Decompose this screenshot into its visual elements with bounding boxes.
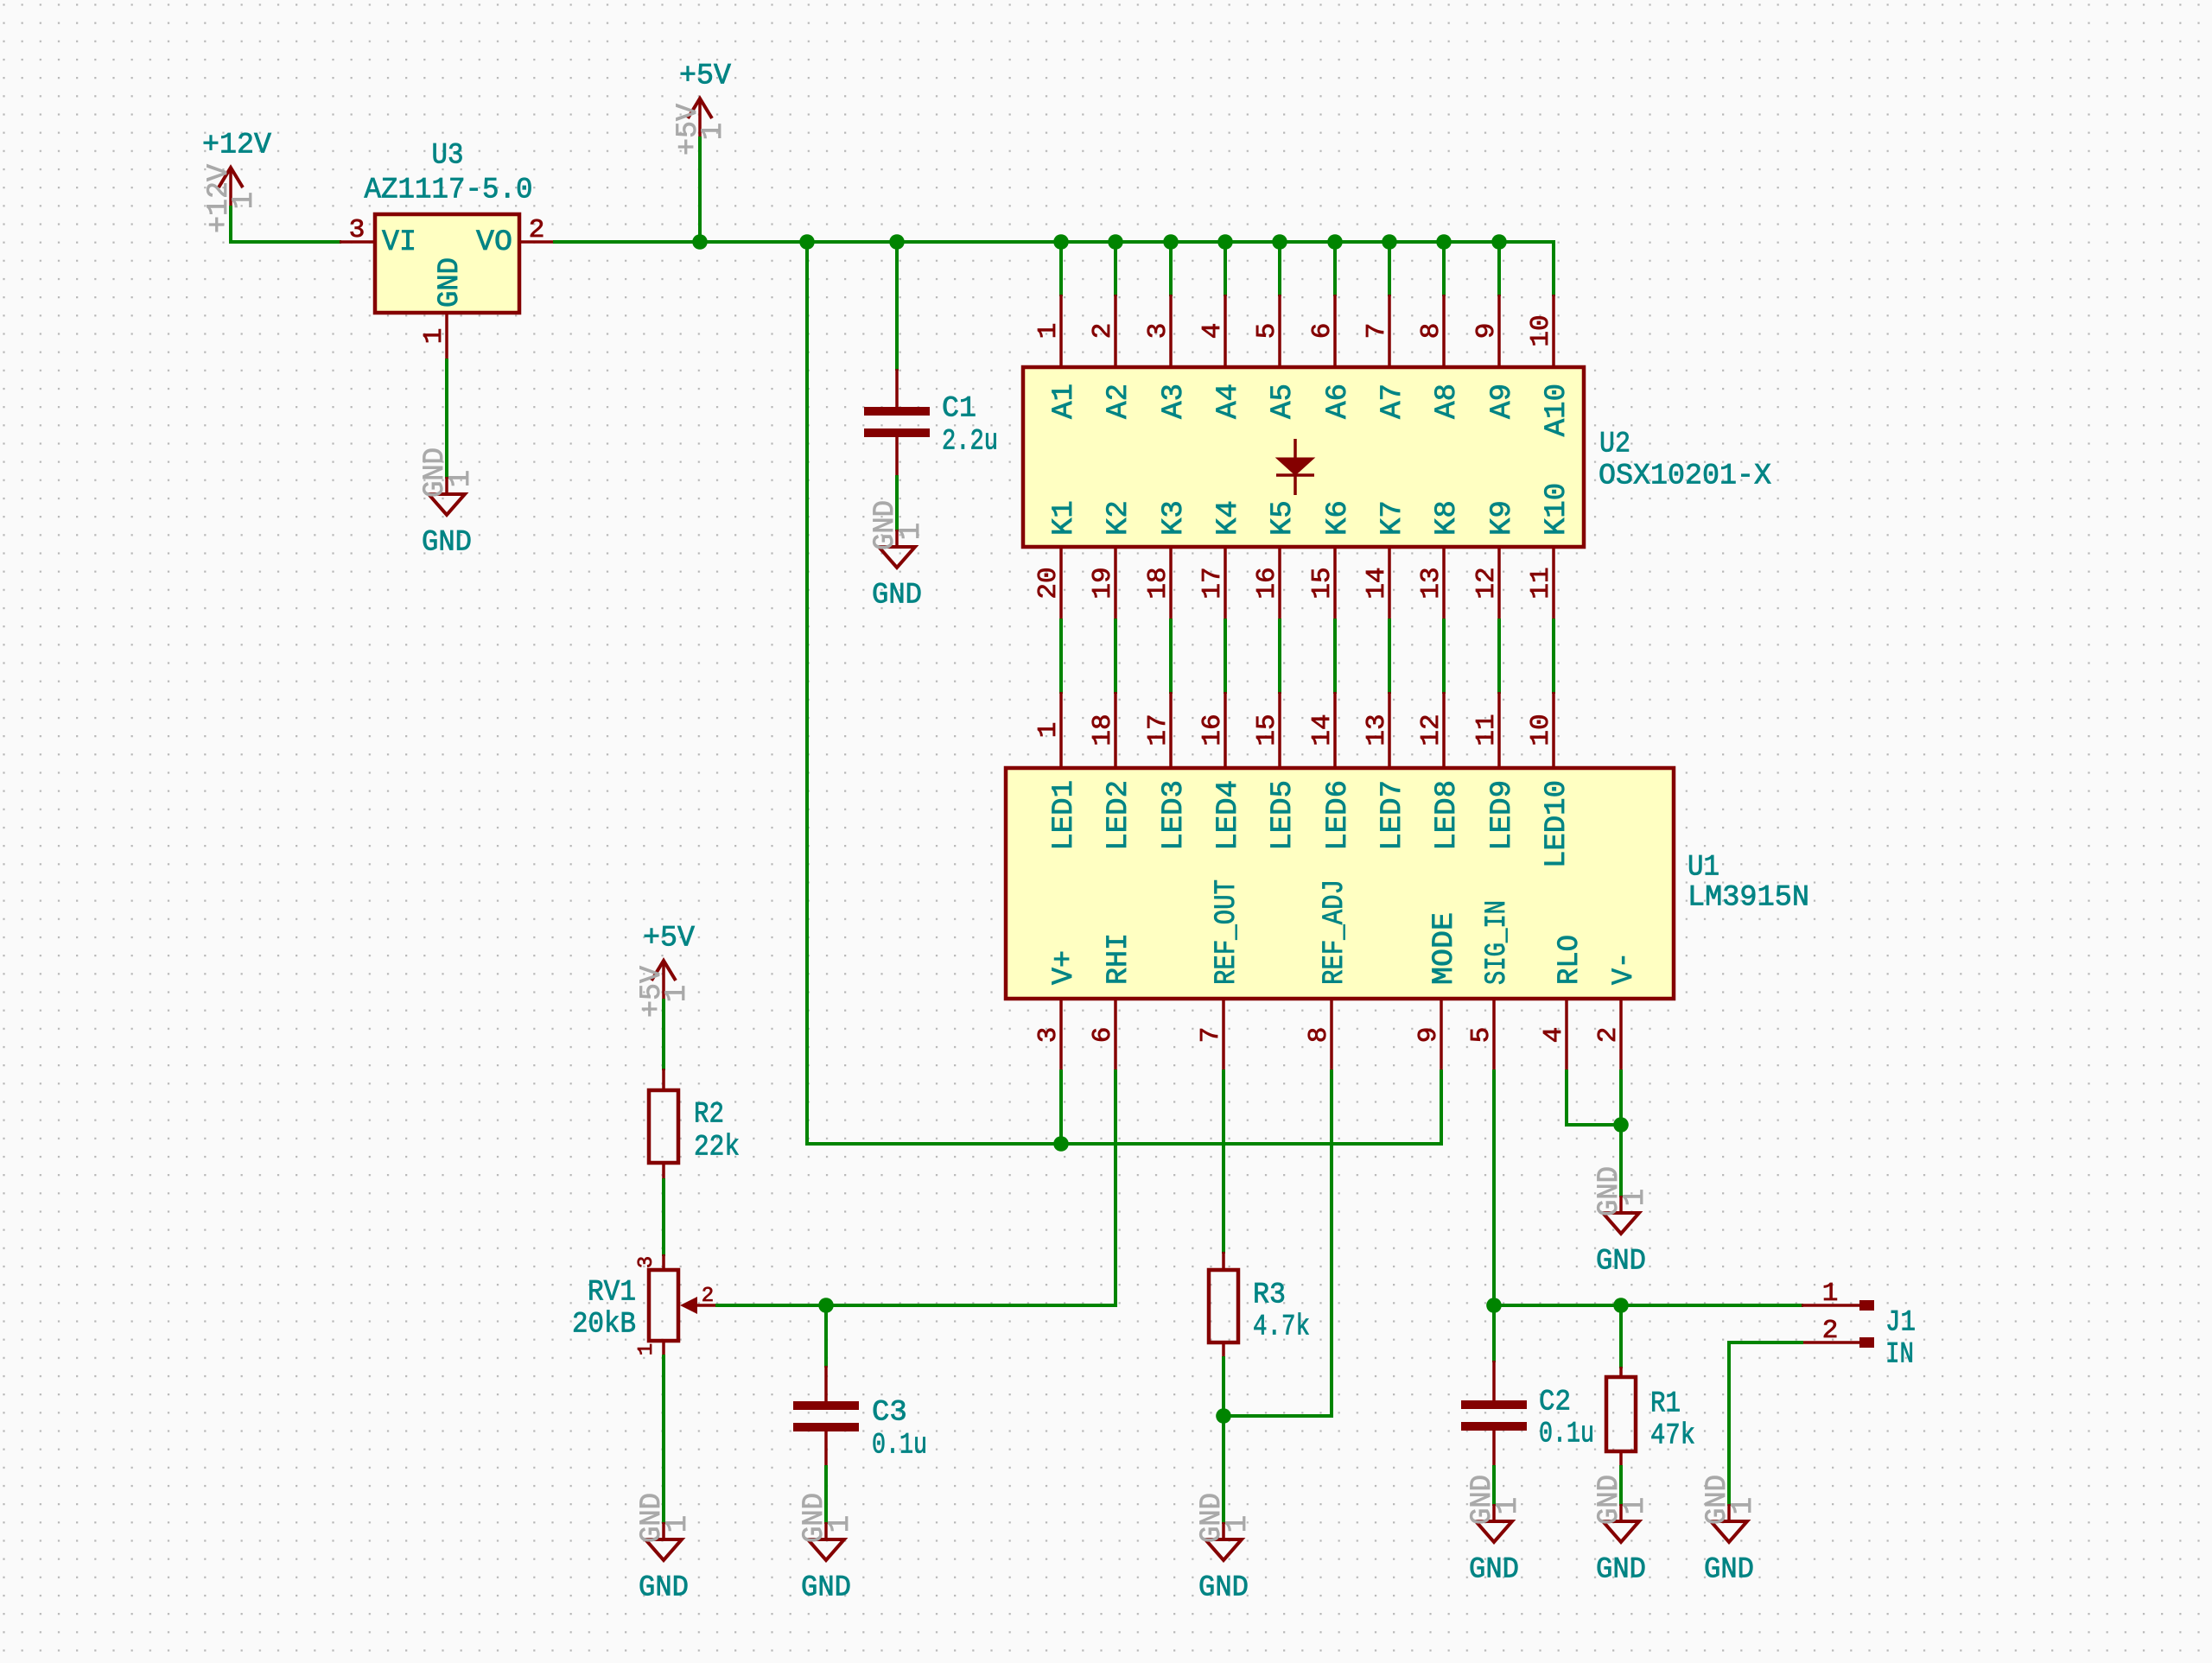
pin C1 bottom lead xyxy=(895,437,899,477)
junction rail col 4 xyxy=(1217,234,1233,250)
junction rail col 8 xyxy=(1436,234,1452,250)
svg-text:OSX10201-X: OSX10201-X xyxy=(1599,460,1771,492)
svg-text:V+: V+ xyxy=(1048,950,1081,985)
svg-text:1: 1 xyxy=(1619,1497,1652,1514)
svg-text:LM3915N: LM3915N xyxy=(1688,881,1809,914)
svg-text:22k: 22k xyxy=(694,1131,740,1164)
svg-text:K9: K9 xyxy=(1486,500,1519,536)
svg-text:V-: V- xyxy=(1608,952,1641,985)
svg-text:5: 5 xyxy=(1466,1027,1497,1044)
svg-text:14: 14 xyxy=(1307,714,1338,746)
wire RV1 wiper to RHI xyxy=(717,1304,1116,1307)
pin R2 top lead xyxy=(662,1069,665,1090)
capacitor plates C1 xyxy=(864,407,930,437)
svg-text:11: 11 xyxy=(1471,714,1502,746)
wire U2 pin 11 to U1 col 10 xyxy=(1552,620,1555,692)
junction +5V at rail x810 xyxy=(692,234,708,250)
svg-text:4: 4 xyxy=(1198,323,1228,340)
LED symbol inside U2 xyxy=(1276,439,1314,495)
junction rail col 7 xyxy=(1382,234,1397,250)
capacitor plates C2 xyxy=(1461,1400,1527,1431)
pin R1 top lead xyxy=(1619,1367,1623,1377)
resistor body R2 xyxy=(649,1090,678,1163)
svg-text:REF_ADJ: REF_ADJ xyxy=(1319,879,1351,985)
svg-text:14: 14 xyxy=(1362,567,1392,599)
svg-text:17: 17 xyxy=(1198,567,1228,599)
svg-text:K7: K7 xyxy=(1376,500,1409,536)
wire U2 pin 16 to U1 col 5 xyxy=(1278,620,1281,692)
resistor body R1 xyxy=(1606,1377,1636,1451)
svg-text:LED3: LED3 xyxy=(1158,780,1191,851)
svg-text:10: 10 xyxy=(1526,314,1556,346)
svg-text:8: 8 xyxy=(1304,1027,1334,1044)
svg-text:+12V: +12V xyxy=(202,129,272,162)
svg-text:A2: A2 xyxy=(1103,384,1135,419)
wire C2 top xyxy=(1492,1305,1496,1361)
svg-text:GND: GND xyxy=(422,526,472,559)
junction C1 at rail xyxy=(889,234,905,250)
svg-text:16: 16 xyxy=(1252,567,1282,599)
wire U2 pin 19 to U1 col 2 xyxy=(1114,620,1117,692)
svg-text:17: 17 xyxy=(1143,714,1173,746)
svg-text:K4: K4 xyxy=(1212,500,1245,536)
svg-text:A3: A3 xyxy=(1158,384,1191,419)
svg-text:2: 2 xyxy=(529,215,545,245)
wire junction to REF_ADJ xyxy=(1224,1414,1332,1418)
svg-text:1: 1 xyxy=(697,123,730,140)
svg-text:4: 4 xyxy=(1539,1027,1569,1044)
wire C1 to ground xyxy=(895,477,899,530)
svg-text:5: 5 xyxy=(1252,323,1282,340)
svg-text:GND: GND xyxy=(1596,1553,1646,1586)
svg-text:U2: U2 xyxy=(1599,428,1630,460)
wire R3 to junction xyxy=(1222,1358,1225,1416)
svg-text:GND: GND xyxy=(639,1571,689,1604)
wire REF_ADJ down to R3 junction xyxy=(1330,1071,1333,1416)
wire SIG_IN down to input net xyxy=(1492,1071,1496,1305)
svg-text:18: 18 xyxy=(1143,567,1173,599)
svg-text:U3: U3 xyxy=(432,139,464,172)
svg-text:1: 1 xyxy=(228,192,261,209)
wire V+ pin down to feed xyxy=(1059,1071,1063,1144)
svg-text:GND: GND xyxy=(1469,1553,1519,1586)
svg-text:SIG_IN: SIG_IN xyxy=(1481,900,1514,985)
ground below R1 xyxy=(1593,1475,1652,1586)
svg-text:GND: GND xyxy=(872,579,922,612)
svg-text:VO: VO xyxy=(476,226,512,259)
svg-text:0.1u: 0.1u xyxy=(1539,1418,1594,1450)
svg-text:R1: R1 xyxy=(1650,1387,1681,1420)
pin C3 top lead xyxy=(824,1366,828,1401)
svg-text:3: 3 xyxy=(349,215,365,245)
svg-text:+5V: +5V xyxy=(643,922,696,955)
svg-text:GND: GND xyxy=(1198,1571,1249,1604)
wire U2 pin 13 to U1 col 8 xyxy=(1442,620,1446,692)
ground below C1 xyxy=(869,500,928,612)
wire rail to U2 pin 4 xyxy=(1224,242,1227,295)
svg-text:U1: U1 xyxy=(1688,851,1719,884)
svg-text:K10: K10 xyxy=(1541,483,1573,536)
wire REF_OUT down to R3 xyxy=(1222,1071,1225,1252)
svg-text:K6: K6 xyxy=(1322,500,1355,536)
svg-text:1: 1 xyxy=(445,470,478,487)
wire C1 top xyxy=(895,242,899,369)
junction rail col 9 xyxy=(1491,234,1507,250)
svg-text:1: 1 xyxy=(824,1515,857,1533)
pin C1 top lead xyxy=(895,369,899,407)
junction rail col 3 xyxy=(1163,234,1179,250)
wire C3 to ground xyxy=(824,1467,828,1522)
wire rail to U2 pin 7 xyxy=(1388,242,1391,295)
wire C2 to ground xyxy=(1492,1467,1496,1504)
svg-text:GND: GND xyxy=(434,257,467,308)
wire +12V to U3 VI xyxy=(231,207,340,242)
ground below V- xyxy=(1593,1166,1652,1278)
svg-text:2: 2 xyxy=(1593,1027,1624,1044)
pin C2 top lead xyxy=(1492,1361,1496,1400)
svg-text:7: 7 xyxy=(1196,1027,1226,1044)
resistor body R3 xyxy=(1209,1270,1238,1342)
svg-text:K2: K2 xyxy=(1103,500,1135,536)
wire RHI down to wiper net xyxy=(1114,1071,1117,1305)
wire U3 GND pin to ground xyxy=(445,360,448,477)
junction rail col 1 xyxy=(1053,234,1069,250)
svg-text:18: 18 xyxy=(1088,714,1118,746)
svg-text:15: 15 xyxy=(1307,567,1338,599)
svg-text:C1: C1 xyxy=(942,392,976,425)
wire rail to U2 pin 8 xyxy=(1442,242,1446,295)
potentiometer RV1 20kB xyxy=(635,1254,717,1356)
svg-text:MODE: MODE xyxy=(1428,912,1461,985)
wire U2 pin 12 to U1 col 9 xyxy=(1497,620,1501,692)
svg-text:47k: 47k xyxy=(1650,1419,1695,1452)
svg-text:1: 1 xyxy=(635,1343,658,1355)
ground below C3 xyxy=(798,1493,857,1604)
svg-text:1: 1 xyxy=(1033,722,1064,739)
svg-text:GND: GND xyxy=(1596,1245,1646,1278)
wire R2 to RV1 xyxy=(662,1180,665,1254)
svg-text:C2: C2 xyxy=(1539,1386,1571,1419)
svg-text:1: 1 xyxy=(662,1515,695,1533)
wire rail to U2 pin 9 xyxy=(1497,242,1501,295)
svg-text:20: 20 xyxy=(1033,567,1064,599)
wire R1 to ground xyxy=(1619,1467,1623,1504)
svg-text:LED6: LED6 xyxy=(1322,780,1355,851)
wire R1 top xyxy=(1619,1305,1623,1367)
wire rail to U2 pin 3 xyxy=(1169,242,1173,295)
junction wiper/C3 xyxy=(818,1298,834,1313)
svg-text:13: 13 xyxy=(1416,567,1446,599)
pin R2 bottom lead xyxy=(662,1163,665,1180)
svg-text:C3: C3 xyxy=(872,1396,907,1429)
svg-text:A1: A1 xyxy=(1048,384,1081,419)
svg-text:A7: A7 xyxy=(1376,384,1409,419)
svg-text:8: 8 xyxy=(1416,323,1446,340)
wire U2 pin 17 to U1 col 4 xyxy=(1224,620,1227,692)
junction RLO/V- xyxy=(1613,1117,1629,1133)
svg-text:1: 1 xyxy=(661,985,694,1002)
svg-text:0.1u: 0.1u xyxy=(872,1429,927,1462)
wire RV1 pin1 to ground xyxy=(662,1356,665,1522)
power symbol +12V (PWR1) xyxy=(202,129,272,233)
svg-text:A5: A5 xyxy=(1267,384,1300,419)
svg-text:3: 3 xyxy=(1033,1027,1064,1044)
regulator U3 AZ1117-5.0 xyxy=(340,214,555,360)
svg-text:12: 12 xyxy=(1471,567,1502,599)
svg-text:AZ1117-5.0: AZ1117-5.0 xyxy=(365,174,533,206)
ground below U3 xyxy=(419,447,478,559)
svg-text:R3: R3 xyxy=(1253,1279,1286,1311)
wire U2 pin 20 to U1 col 1 xyxy=(1059,620,1063,692)
svg-text:1: 1 xyxy=(419,328,449,345)
svg-text:K5: K5 xyxy=(1267,500,1300,536)
junction V+ and feed wire xyxy=(1053,1136,1069,1152)
wire U2 pin 18 to U1 col 3 xyxy=(1169,620,1173,692)
wire C3 top xyxy=(824,1305,828,1366)
wire U2 pin 15 to U1 col 6 xyxy=(1333,620,1337,692)
svg-text:6: 6 xyxy=(1307,323,1338,340)
wire feed to lower circuit (vertical) xyxy=(807,242,1441,1144)
svg-text:3: 3 xyxy=(1143,323,1173,340)
svg-text:GND: GND xyxy=(801,1571,851,1604)
ground below R3 xyxy=(1196,1493,1255,1604)
ground below C2 xyxy=(1466,1475,1525,1586)
svg-text:REF_OUT: REF_OUT xyxy=(1211,879,1243,985)
svg-text:J1: J1 xyxy=(1885,1306,1916,1339)
junction rail col 6 xyxy=(1327,234,1343,250)
svg-text:LED10: LED10 xyxy=(1541,780,1573,868)
wire rail to U2 pin 1 xyxy=(1059,242,1063,295)
connector J1 (2 pins) xyxy=(1802,1279,1874,1348)
svg-text:LED8: LED8 xyxy=(1431,780,1464,851)
svg-text:13: 13 xyxy=(1362,714,1392,746)
svg-text:6: 6 xyxy=(1088,1027,1118,1044)
junction feed wire at rail x934 xyxy=(799,234,815,250)
capacitor plates C3 xyxy=(793,1401,859,1431)
wire U2 pin 14 to U1 col 7 xyxy=(1388,620,1391,692)
power symbol +5V (PWR3) xyxy=(636,922,696,1018)
svg-text:2: 2 xyxy=(1822,1316,1839,1346)
pin C3 bottom lead xyxy=(824,1431,828,1467)
svg-text:1: 1 xyxy=(1492,1497,1525,1514)
svg-text:19: 19 xyxy=(1088,567,1118,599)
svg-text:A4: A4 xyxy=(1212,384,1245,419)
svg-text:1: 1 xyxy=(1619,1189,1652,1206)
svg-text:2: 2 xyxy=(1088,323,1118,340)
pin R1 bottom lead xyxy=(1619,1451,1623,1467)
wire RLO jog to V- xyxy=(1567,1071,1621,1125)
svg-text:K3: K3 xyxy=(1158,500,1191,536)
LED driver U1 LM3915N (body and pins) xyxy=(1006,692,1674,1071)
wire J1 pin2 to ground xyxy=(1729,1342,1802,1504)
svg-text:A8: A8 xyxy=(1431,384,1464,419)
svg-text:LED7: LED7 xyxy=(1376,780,1409,851)
svg-text:1: 1 xyxy=(1822,1279,1839,1309)
svg-text:RLO: RLO xyxy=(1554,935,1586,985)
svg-text:2: 2 xyxy=(702,1285,714,1308)
wire rail to U2 pin 6 xyxy=(1333,242,1337,295)
svg-text:1: 1 xyxy=(1727,1497,1760,1514)
svg-text:RHI: RHI xyxy=(1103,933,1135,985)
wire rail to U2 pin 5 xyxy=(1278,242,1281,295)
svg-text:A10: A10 xyxy=(1541,384,1573,436)
svg-text:9: 9 xyxy=(1471,323,1502,340)
wire +5V to R2 xyxy=(662,1000,665,1069)
junction rail col 5 xyxy=(1272,234,1287,250)
wire +5V rail xyxy=(555,242,1554,295)
wire input net horizontal xyxy=(1494,1304,1802,1307)
wire V- down to ground xyxy=(1619,1071,1623,1196)
svg-text:2.2u: 2.2u xyxy=(942,425,998,458)
junction R1/input xyxy=(1613,1298,1629,1313)
svg-text:12: 12 xyxy=(1416,714,1446,746)
svg-text:15: 15 xyxy=(1252,714,1282,746)
svg-text:RV1: RV1 xyxy=(588,1276,636,1309)
svg-text:LED4: LED4 xyxy=(1212,780,1245,851)
svg-text:4.7k: 4.7k xyxy=(1253,1311,1310,1343)
svg-text:A9: A9 xyxy=(1486,384,1519,419)
svg-text:20kB: 20kB xyxy=(572,1308,636,1341)
pin C2 bottom lead xyxy=(1492,1431,1496,1467)
LED bar graph U2 OSX10201-X (body and pins) xyxy=(1023,295,1584,620)
svg-text:R2: R2 xyxy=(694,1098,724,1131)
svg-text:11: 11 xyxy=(1526,567,1556,599)
wire MODE pin down to feed xyxy=(1440,1071,1443,1144)
pin R3 top lead xyxy=(1222,1252,1225,1270)
junction rail col 2 xyxy=(1108,234,1123,250)
svg-text:1: 1 xyxy=(1033,323,1064,340)
svg-text:GND: GND xyxy=(1704,1553,1754,1586)
svg-text:LED9: LED9 xyxy=(1486,780,1519,851)
svg-text:A6: A6 xyxy=(1322,384,1355,419)
svg-text:K8: K8 xyxy=(1431,500,1464,536)
svg-text:VI: VI xyxy=(382,226,416,259)
wire R3 junction to ground xyxy=(1222,1416,1225,1522)
svg-text:10: 10 xyxy=(1526,714,1556,746)
svg-text:K1: K1 xyxy=(1048,500,1081,536)
wire rail to U2 pin 2 xyxy=(1114,242,1117,295)
ground below J1 xyxy=(1701,1475,1760,1586)
junction R3/REF_ADJ xyxy=(1216,1408,1231,1424)
svg-text:IN: IN xyxy=(1885,1338,1914,1371)
power symbol +5V (PWR2) xyxy=(672,60,732,156)
wire +5V symbol drop xyxy=(698,138,702,242)
svg-text:7: 7 xyxy=(1362,323,1392,340)
svg-text:+5V: +5V xyxy=(679,60,732,92)
svg-text:LED5: LED5 xyxy=(1267,780,1300,851)
pin R3 bottom lead xyxy=(1222,1342,1225,1358)
svg-text:16: 16 xyxy=(1198,714,1228,746)
svg-text:3: 3 xyxy=(635,1256,658,1268)
ground below RV1 xyxy=(636,1493,695,1604)
svg-text:1: 1 xyxy=(895,523,928,540)
svg-text:LED2: LED2 xyxy=(1103,780,1135,851)
svg-text:9: 9 xyxy=(1414,1027,1444,1044)
svg-text:LED1: LED1 xyxy=(1048,780,1081,851)
junction SIG_IN/C2 xyxy=(1486,1298,1502,1313)
svg-text:1: 1 xyxy=(1222,1515,1255,1533)
